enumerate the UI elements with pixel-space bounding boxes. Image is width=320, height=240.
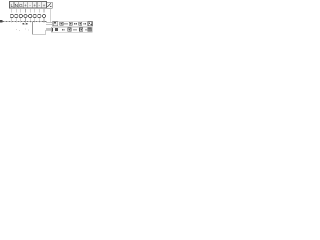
LED strip 2 body <box>52 27 93 32</box>
screw terminals (circles) <box>10 14 45 17</box>
strip 1 LED D2 <box>69 22 72 25</box>
wire stubs from block to screws <box>12 8 44 13</box>
faint speckles <box>16 28 29 31</box>
strip 1 pads P2 <box>74 23 77 25</box>
strip 2 pads P5 <box>74 29 77 31</box>
strip 1 LED D1 <box>60 22 63 25</box>
return loop wire <box>33 22 53 34</box>
wire from dimmer down <box>50 8 52 22</box>
strip 1 pads P1 <box>65 23 68 25</box>
bus wire (dashed) <box>3 21 47 23</box>
strip 1 pads P3 <box>83 23 86 25</box>
strip 1 input connector <box>53 22 58 26</box>
strip 2 LED D5 <box>79 28 82 31</box>
strip 2 end connector <box>88 28 91 31</box>
terminal labels L N G + - + - <box>10 3 45 9</box>
terminal block TB1 <box>10 2 47 9</box>
feed wires to strip 2 <box>46 27 53 29</box>
inline dimmer S1 <box>47 2 53 8</box>
wire stubs from screws to bus <box>12 18 44 23</box>
label under bus <box>23 23 28 25</box>
feed wires to strip 1 <box>46 21 54 23</box>
strip 2 input connector <box>52 28 58 32</box>
strip 2 pads P4 <box>62 29 65 31</box>
strip 1 LED D3 <box>79 22 82 25</box>
mains cable entry (left edge) <box>0 20 2 23</box>
strip 2 LED D4 <box>68 28 71 31</box>
LED strip 1 body <box>53 21 93 26</box>
strip 2 pads P6 <box>85 29 86 31</box>
strip 1 end connector <box>88 22 92 26</box>
